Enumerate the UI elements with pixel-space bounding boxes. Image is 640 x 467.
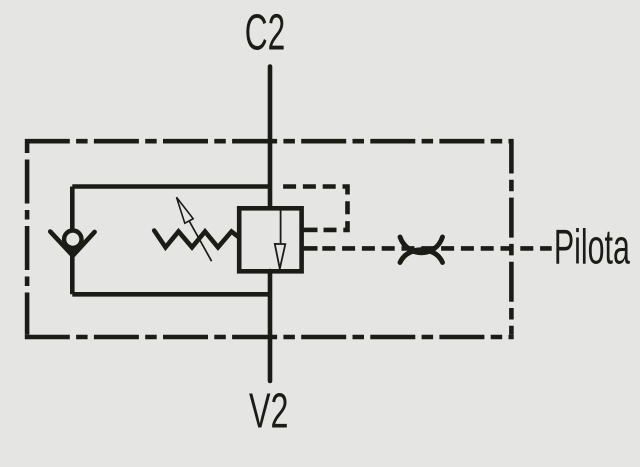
- check valve seat: [50, 232, 94, 256]
- envelope bottom edge (dashed boundary): [25, 335, 514, 340]
- flow restrictor upper arc: [400, 237, 443, 253]
- wire: check valve branch vertical: [70, 187, 75, 295]
- valve body U1 (square): [239, 208, 301, 271]
- svg-text:V2: V2: [249, 384, 289, 438]
- envelope left edge (dashed boundary): [25, 144, 30, 335]
- pilot line (dashed, lower stub to Pilota port): [318, 246, 552, 251]
- adjustment arrow head (hollow): [177, 197, 194, 223]
- wire: inner solid frame top (check valve branch to C2 node): [72, 184, 272, 189]
- wire: inner solid frame bottom (check valve branch to V2 node): [72, 292, 272, 297]
- pilot stub lower (valve body right): [302, 246, 318, 251]
- envelope top edge (dashed boundary): [25, 139, 514, 144]
- wire V2 vertical (valve body to port V2): [268, 271, 273, 381]
- poppet flow arrow (hollow, pointing down): [275, 244, 286, 269]
- svg-text:C2: C2: [245, 4, 286, 61]
- spring (adjustable, acts on valve body left side): [154, 231, 239, 248]
- wire C2 vertical (port C2 to valve body): [268, 67, 273, 208]
- envelope right edge (dashed boundary): [509, 144, 514, 335]
- flow restrictor lower arc: [400, 250, 443, 263]
- svg-text:Pilota: Pilota: [554, 220, 630, 274]
- adjustment arrow shaft: [189, 221, 211, 261]
- poppet flow path line: [280, 210, 282, 244]
- pilot loop (dashed, C2 sensing to upper stub): [280, 187, 348, 230]
- check valve ball: [64, 231, 81, 248]
- pilot stub upper (valve body right): [302, 228, 318, 233]
